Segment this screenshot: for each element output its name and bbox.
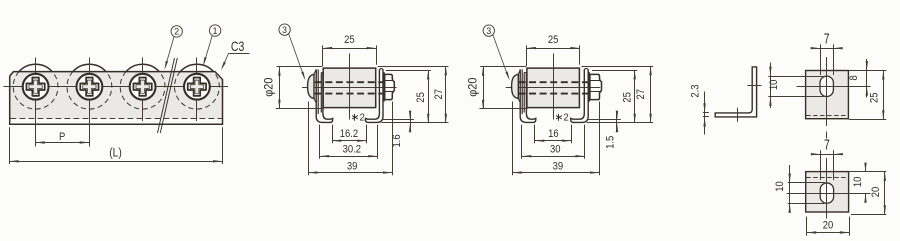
svg-text:30.2: 30.2	[343, 144, 362, 156]
svg-text:20: 20	[823, 220, 834, 232]
svg-text:2: 2	[563, 112, 569, 123]
svg-text:φ20: φ20	[263, 78, 275, 97]
svg-text:2: 2	[174, 26, 179, 36]
svg-text:25: 25	[344, 35, 355, 47]
svg-text:25: 25	[548, 35, 559, 47]
svg-text:3: 3	[486, 26, 491, 36]
svg-text:27: 27	[636, 89, 648, 100]
svg-text:25: 25	[622, 92, 634, 103]
svg-text:2.3: 2.3	[690, 84, 702, 97]
svg-text:7: 7	[824, 137, 830, 153]
svg-text:1: 1	[213, 25, 218, 35]
svg-text:16: 16	[548, 129, 559, 141]
svg-text:φ20: φ20	[467, 78, 479, 97]
svg-text:20: 20	[870, 186, 882, 197]
svg-text:(L): (L)	[109, 147, 122, 160]
svg-text:3: 3	[282, 25, 287, 35]
svg-text:1.5: 1.5	[605, 135, 617, 148]
svg-text:25: 25	[869, 92, 881, 103]
svg-text:16.2: 16.2	[340, 129, 359, 141]
svg-text:25: 25	[416, 92, 428, 103]
svg-text:C3: C3	[231, 39, 245, 55]
svg-text:30: 30	[550, 144, 561, 156]
svg-text:7: 7	[824, 31, 830, 47]
svg-text:8: 8	[848, 75, 860, 81]
svg-text:2: 2	[360, 112, 366, 123]
svg-text:10: 10	[852, 176, 864, 187]
svg-text:1.6: 1.6	[392, 134, 404, 147]
svg-text:39: 39	[347, 161, 358, 173]
svg-text:27: 27	[433, 89, 445, 100]
svg-text:39: 39	[553, 161, 564, 173]
svg-text:10: 10	[774, 181, 786, 192]
svg-text:P: P	[59, 131, 65, 143]
svg-text:10: 10	[769, 79, 781, 90]
